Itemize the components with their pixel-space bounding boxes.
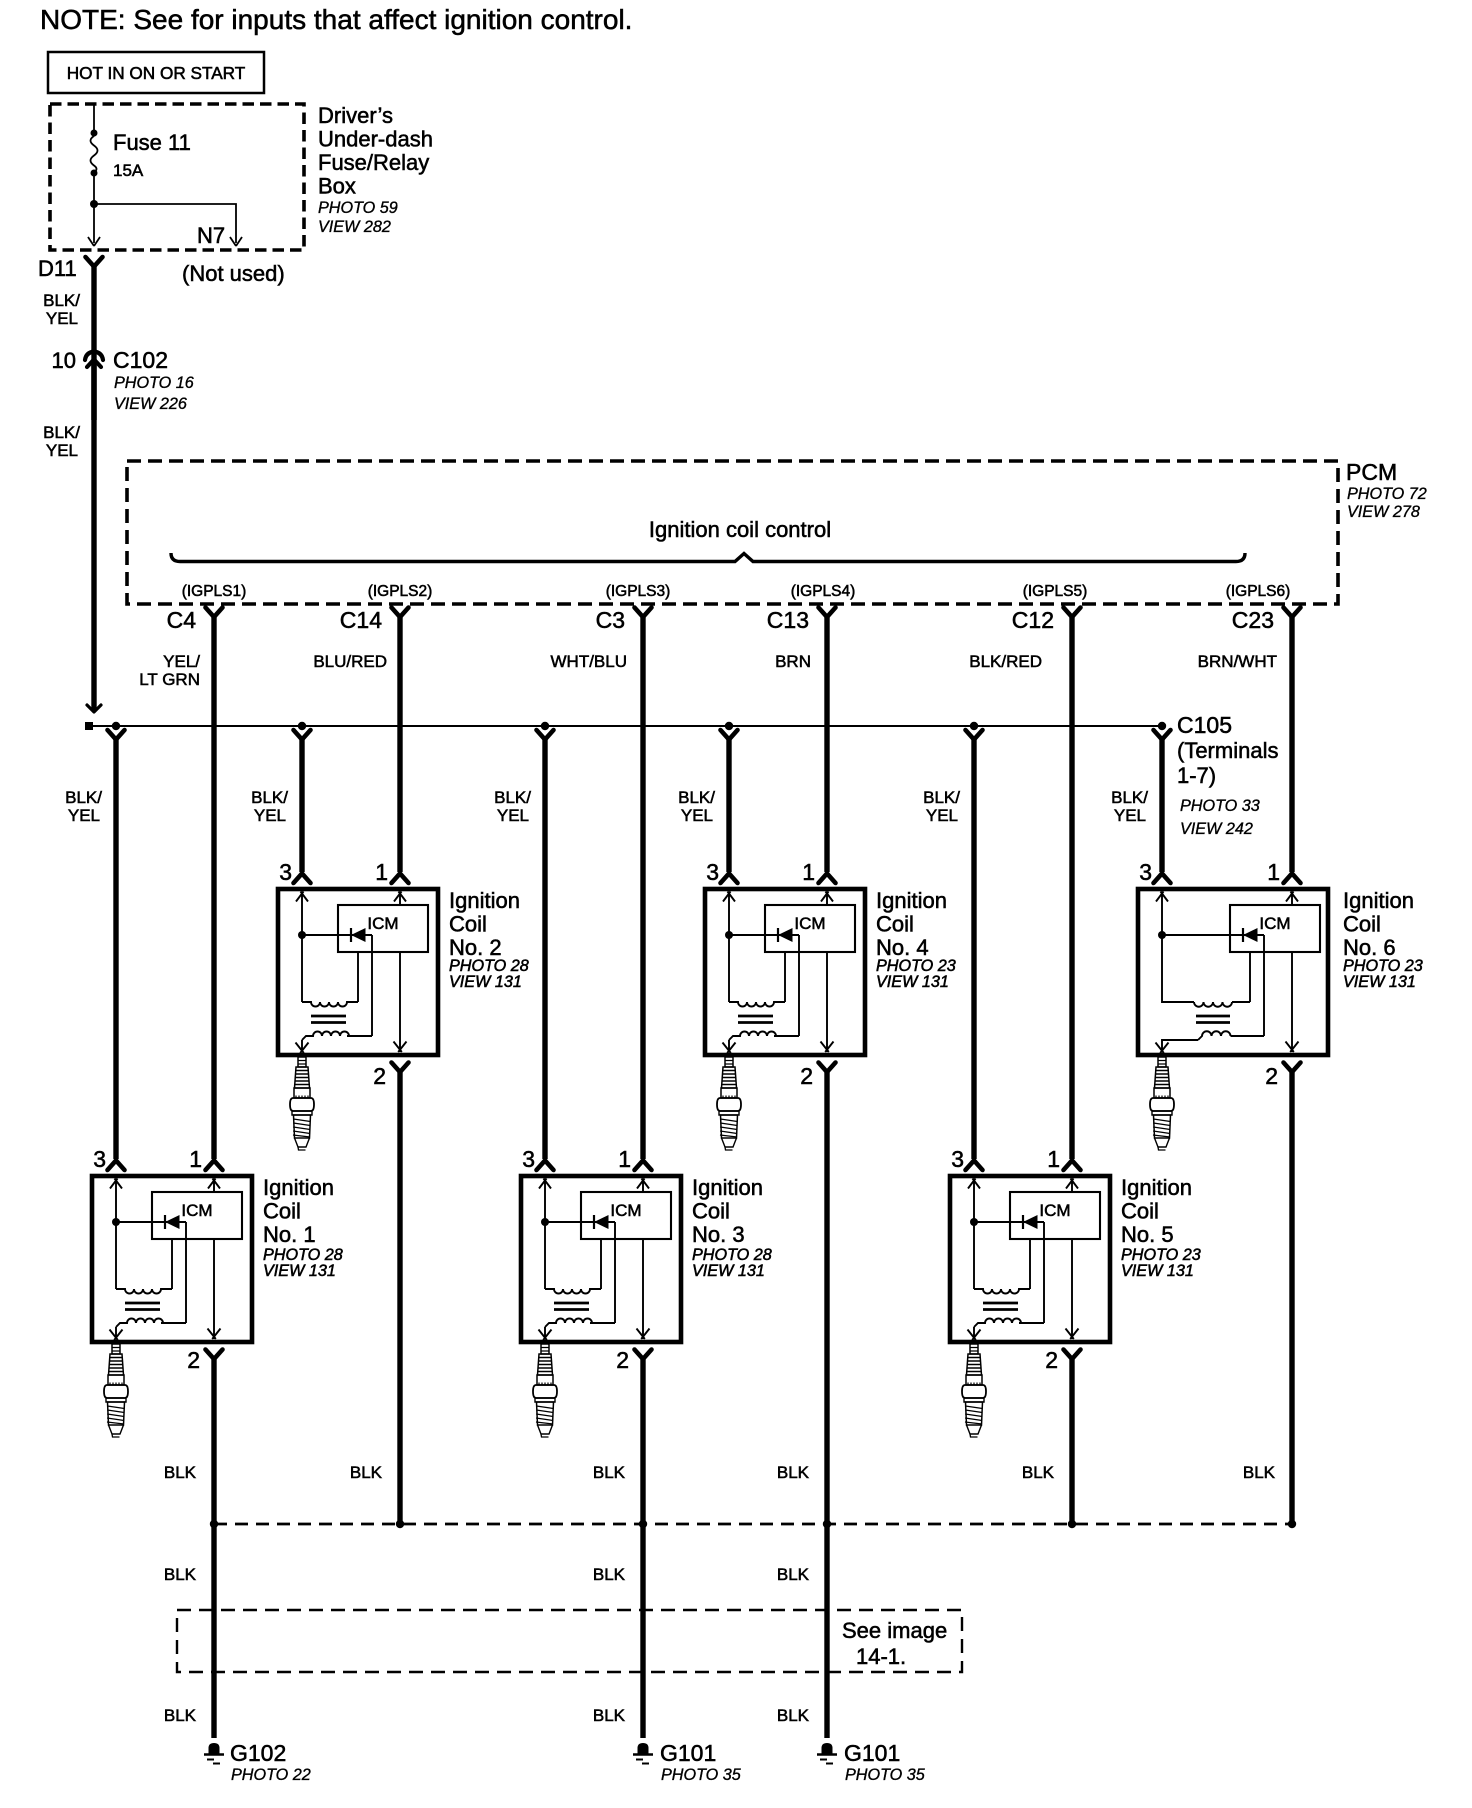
svg-text:(Not used): (Not used) [182,261,285,286]
svg-text:3: 3 [951,1146,964,1172]
svg-text:BLK: BLK [1022,1463,1055,1482]
svg-text:No. 5: No. 5 [1121,1222,1174,1247]
svg-text:PHOTO 16: PHOTO 16 [114,374,194,392]
svg-text:No. 1: No. 1 [263,1222,316,1247]
svg-text:PHOTO 59: PHOTO 59 [318,199,398,217]
svg-text:C14: C14 [340,607,382,633]
svg-text:3: 3 [706,859,719,885]
svg-text:Ignition: Ignition [263,1175,334,1200]
svg-text:VIEW 131: VIEW 131 [1343,973,1416,991]
svg-text:PCM: PCM [1346,459,1397,485]
svg-text:BLK/: BLK/ [1111,788,1148,807]
svg-text:BLK: BLK [593,1565,626,1584]
svg-text:2: 2 [1045,1347,1058,1373]
svg-text:BLK/RED: BLK/RED [969,652,1042,671]
svg-text:No. 3: No. 3 [692,1222,745,1247]
svg-text:NOTE: See for inputs that affe: NOTE: See for inputs that affect ignitio… [40,4,632,35]
svg-text:D11: D11 [38,256,77,281]
svg-text:VIEW 131: VIEW 131 [263,1262,336,1280]
svg-text:(IGPLS5): (IGPLS5) [1023,583,1088,600]
svg-text:Fuse/Relay: Fuse/Relay [318,150,429,175]
svg-text:VIEW 131: VIEW 131 [1121,1262,1194,1280]
svg-text:3: 3 [1139,859,1152,885]
svg-text:C105: C105 [1177,712,1232,738]
svg-text:YEL: YEL [681,806,713,825]
svg-text:C3: C3 [596,607,625,633]
svg-text:BLK/: BLK/ [494,788,531,807]
svg-text:2: 2 [373,1063,386,1089]
svg-text:YEL: YEL [68,806,100,825]
svg-text:VIEW 226: VIEW 226 [114,395,187,413]
svg-text:Coil: Coil [449,912,487,937]
svg-text:N7: N7 [197,223,225,248]
svg-text:Ignition: Ignition [1343,888,1414,913]
svg-text:Coil: Coil [1343,912,1381,937]
svg-text:LT GRN: LT GRN [139,670,200,689]
svg-text:VIEW 242: VIEW 242 [1180,820,1253,838]
svg-text:YEL: YEL [926,806,958,825]
svg-text:1: 1 [802,859,815,885]
svg-text:1: 1 [618,1146,631,1172]
svg-text:BRN/WHT: BRN/WHT [1198,652,1277,671]
svg-text:PHOTO 35: PHOTO 35 [845,1766,926,1784]
svg-text:3: 3 [279,859,292,885]
svg-text:1: 1 [189,1146,202,1172]
svg-text:BLK: BLK [164,1706,197,1725]
svg-text:C4: C4 [167,607,197,633]
svg-text:(IGPLS3): (IGPLS3) [606,583,671,600]
svg-text:YEL/: YEL/ [163,652,200,671]
svg-text:1: 1 [375,859,388,885]
svg-text:PHOTO 72: PHOTO 72 [1347,485,1427,503]
svg-text:HOT IN ON OR START: HOT IN ON OR START [67,63,246,83]
svg-text:BLK: BLK [777,1706,810,1725]
svg-text:BLK: BLK [164,1565,197,1584]
svg-text:2: 2 [616,1347,629,1373]
svg-text:10: 10 [52,348,76,373]
svg-text:1: 1 [1267,859,1280,885]
svg-text:C102: C102 [113,347,168,373]
svg-text:PHOTO 33: PHOTO 33 [1180,797,1260,815]
svg-text:2: 2 [800,1063,813,1089]
svg-text:YEL: YEL [46,441,78,460]
svg-text:1-7): 1-7) [1177,763,1216,788]
svg-text:PHOTO 22: PHOTO 22 [231,1766,311,1784]
svg-text:BLK: BLK [350,1463,383,1482]
svg-text:(IGPLS4): (IGPLS4) [791,583,856,600]
svg-text:BLK: BLK [593,1706,626,1725]
svg-text:VIEW 282: VIEW 282 [318,218,391,236]
svg-text:3: 3 [93,1146,106,1172]
svg-text:YEL: YEL [1114,806,1146,825]
svg-text:VIEW 131: VIEW 131 [876,973,949,991]
svg-text:BRN: BRN [775,652,811,671]
svg-text:15A: 15A [113,161,144,180]
svg-text:1: 1 [1047,1146,1060,1172]
svg-text:BLK/: BLK/ [923,788,960,807]
svg-text:Coil: Coil [263,1199,301,1224]
svg-text:BLK/: BLK/ [43,423,80,442]
svg-text:BLK/: BLK/ [65,788,102,807]
svg-text:G101: G101 [660,1740,716,1766]
svg-text:BLK: BLK [777,1463,810,1482]
svg-text:3: 3 [522,1146,535,1172]
svg-text:C13: C13 [767,607,809,633]
svg-text:WHT/BLU: WHT/BLU [551,652,628,671]
svg-text:G102: G102 [230,1740,286,1766]
svg-text:VIEW 131: VIEW 131 [449,973,522,991]
svg-text:Fuse 11: Fuse 11 [113,130,191,155]
svg-text:Under-dash: Under-dash [318,127,433,152]
svg-text:YEL: YEL [497,806,529,825]
svg-text:Coil: Coil [692,1199,730,1224]
svg-text:14-1.: 14-1. [856,1644,906,1669]
svg-text:Coil: Coil [1121,1199,1159,1224]
svg-text:C23: C23 [1232,607,1274,633]
svg-text:Ignition: Ignition [1121,1175,1192,1200]
svg-text:BLK: BLK [593,1463,626,1482]
svg-text:Driver’s: Driver’s [318,103,393,128]
svg-text:Ignition: Ignition [449,888,520,913]
svg-text:VIEW 131: VIEW 131 [692,1262,765,1280]
svg-text:2: 2 [1265,1063,1278,1089]
svg-text:BLK: BLK [1243,1463,1276,1482]
svg-text:Ignition coil control: Ignition coil control [649,517,831,542]
svg-text:G101: G101 [844,1740,900,1766]
svg-text:BLU/RED: BLU/RED [313,652,387,671]
svg-text:(IGPLS2): (IGPLS2) [368,583,433,600]
svg-text:BLK/: BLK/ [43,291,80,310]
svg-text:YEL: YEL [46,309,78,328]
svg-text:(Terminals: (Terminals [1177,738,1278,763]
svg-text:Box: Box [318,174,356,199]
svg-text:BLK: BLK [164,1463,197,1482]
svg-text:Ignition: Ignition [692,1175,763,1200]
svg-text:YEL: YEL [254,806,286,825]
svg-text:See image: See image [842,1618,947,1643]
svg-text:BLK/: BLK/ [678,788,715,807]
svg-text:Ignition: Ignition [876,888,947,913]
svg-text:C12: C12 [1012,607,1054,633]
svg-text:VIEW 278: VIEW 278 [1347,503,1420,521]
svg-text:Coil: Coil [876,912,914,937]
svg-text:BLK/: BLK/ [251,788,288,807]
svg-text:2: 2 [187,1347,200,1373]
svg-text:(IGPLS1): (IGPLS1) [182,583,247,600]
svg-text:BLK: BLK [777,1565,810,1584]
svg-text:(IGPLS6): (IGPLS6) [1226,583,1291,600]
svg-text:PHOTO 35: PHOTO 35 [661,1766,742,1784]
